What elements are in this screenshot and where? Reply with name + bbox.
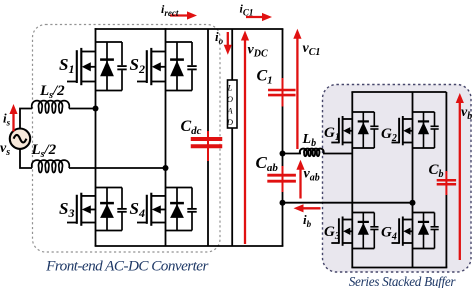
wire source bottom lead: [20, 149, 32, 168]
svg-text:D: D: [226, 117, 234, 127]
wire DC bus (C1/Cab): [282, 29, 284, 246]
wire buffer top rail: [351, 91, 446, 93]
svg-text:vDC: vDC: [248, 43, 268, 60]
voltage v_b arrow: [456, 93, 464, 260]
svg-text:is: is: [3, 111, 11, 128]
inductor Lb: [300, 149, 324, 157]
svg-text:Lb: Lb: [302, 132, 317, 149]
wire buffer leg2 (G2/G4): [412, 92, 414, 268]
label Cab: [256, 153, 279, 174]
label G3: [324, 224, 340, 242]
label Ls/2 bottom: [31, 142, 57, 160]
svg-text:Ls: Ls: [31, 142, 45, 160]
current i_b arrow: [294, 204, 321, 212]
switch G4 (MOSFET+diode+cap): [392, 213, 439, 249]
wire top DC rail: [95, 28, 284, 30]
wire C_dc branch: [207, 29, 209, 246]
wire load branch bottom: [231, 128, 233, 246]
node phase A: [93, 106, 99, 112]
switch G2 (MOSFET+diode+cap): [392, 112, 439, 148]
wire bridge leg B (S2/S4): [165, 28, 167, 246]
label Cdc: [181, 118, 202, 137]
wire load branch top: [231, 29, 233, 80]
label G2: [381, 126, 397, 144]
label G1: [324, 125, 340, 143]
svg-text:S3: S3: [59, 199, 74, 220]
svg-text:S4: S4: [130, 199, 145, 220]
svg-text:Ls: Ls: [39, 83, 53, 101]
wire bridge leg A (S1/S3): [95, 28, 97, 246]
ac source vs: [10, 129, 30, 149]
label v_b: [461, 105, 472, 122]
switch S3 (MOSFET+diode+cap): [67, 188, 127, 231]
current i_rect arrow: [170, 11, 197, 19]
capacitor Cdc: [191, 131, 223, 161]
wire top phase: [69, 108, 96, 110]
label S3: [59, 199, 74, 220]
label G4: [381, 225, 397, 243]
wire Lb right: [323, 153, 352, 155]
caption buffer: [349, 274, 457, 288]
wire buffer leg1 (G1/G3): [351, 92, 353, 268]
label i_o: [215, 29, 224, 46]
voltage v_C1 arrow: [293, 29, 301, 149]
label S4: [130, 199, 145, 220]
svg-text:Cdc: Cdc: [181, 118, 202, 137]
svg-text:S2: S2: [130, 55, 145, 76]
svg-text:A: A: [226, 106, 233, 116]
load block: [226, 80, 237, 128]
label v_DC: [248, 43, 268, 60]
wire bottom DC rail: [95, 245, 284, 247]
wire Lb left: [283, 153, 302, 155]
svg-text:Series Stacked Buffer: Series Stacked Buffer: [349, 274, 457, 288]
current i_C1 arrow: [246, 13, 272, 21]
svg-text:vs: vs: [0, 141, 10, 158]
label v_C1: [303, 41, 321, 58]
switch G1 (MOSFET+diode+cap): [331, 112, 378, 148]
label v_ab: [304, 167, 320, 184]
node Cab bottom / ib: [280, 200, 286, 206]
label C1: [257, 68, 273, 87]
inductor Ls/2 top: [32, 101, 70, 113]
svg-text:C1: C1: [257, 68, 273, 87]
svg-text:vC1: vC1: [303, 41, 321, 58]
series stacked buffer dashed region: [323, 85, 472, 273]
svg-text:io: io: [215, 29, 224, 46]
wire ib: [283, 202, 413, 204]
front-end converter dashed region: [33, 25, 221, 253]
label Cb: [429, 162, 444, 180]
wire bottom phase: [69, 167, 166, 169]
node C1 bottom / Lb: [280, 151, 286, 157]
svg-text:/2: /2: [44, 142, 57, 158]
node ib / leg G2-G4: [410, 200, 416, 206]
svg-text:irect: irect: [161, 2, 179, 18]
svg-text:/2: /2: [52, 83, 65, 99]
svg-text:S1: S1: [59, 55, 74, 76]
current is arrow: [9, 104, 17, 131]
svg-text:vab: vab: [304, 167, 320, 184]
switch G3 (MOSFET+diode+cap): [331, 213, 378, 249]
svg-text:L: L: [227, 83, 233, 93]
wire buffer bottom rail: [351, 267, 447, 269]
label i_b: [303, 212, 312, 229]
caption front-end: [45, 258, 208, 275]
capacitor Cb: [437, 171, 456, 195]
svg-text:iC1: iC1: [240, 2, 254, 18]
label is: [3, 111, 11, 128]
capacitor C1: [268, 78, 296, 107]
inductor Ls/2 bottom: [32, 160, 70, 172]
voltage v_DC arrow: [241, 31, 249, 245]
label vs: [0, 141, 10, 158]
svg-text:ib: ib: [303, 212, 312, 229]
label Ls/2 top: [39, 83, 65, 101]
wire Cb branch: [445, 92, 447, 268]
label S1: [59, 55, 74, 76]
current i_o arrow: [224, 32, 232, 55]
switch S1 (MOSFET+diode+cap): [67, 42, 127, 91]
capacitor Cab: [267, 166, 296, 192]
label S2: [130, 55, 145, 76]
svg-text:O: O: [227, 94, 233, 104]
wire source top lead: [20, 109, 32, 129]
node phase B: [163, 165, 169, 171]
switch S4 (MOSFET+diode+cap): [137, 188, 197, 231]
label i_C1: [240, 2, 254, 18]
voltage v_ab arrow: [296, 160, 304, 199]
label i_rect: [161, 2, 179, 18]
label Lb: [302, 132, 317, 149]
switch S2 (MOSFET+diode+cap): [137, 42, 197, 91]
svg-text:Cab: Cab: [256, 153, 279, 174]
svg-text:Front-end AC-DC Converter: Front-end AC-DC Converter: [45, 258, 208, 275]
